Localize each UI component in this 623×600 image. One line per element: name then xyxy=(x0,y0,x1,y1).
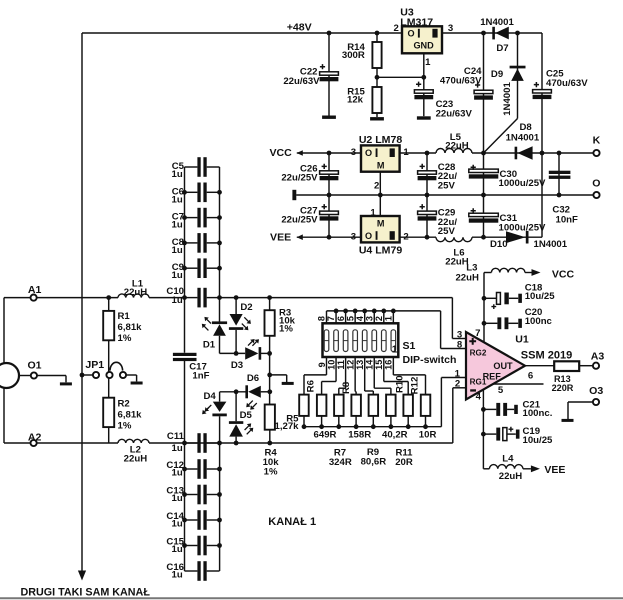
svg-text:D10: D10 xyxy=(490,239,508,250)
svg-text:O: O xyxy=(407,29,414,39)
svg-text:1%: 1% xyxy=(279,324,293,335)
svg-text:10R: 10R xyxy=(419,429,437,440)
svg-text:SSM 2019: SSM 2019 xyxy=(521,350,573,362)
svg-text:VEE: VEE xyxy=(544,464,565,476)
svg-text:3: 3 xyxy=(351,147,356,158)
svg-text:13: 13 xyxy=(355,360,365,370)
svg-text:3: 3 xyxy=(351,231,356,242)
svg-text:649R: 649R xyxy=(314,429,337,440)
svg-text:14: 14 xyxy=(365,359,375,370)
svg-text:2: 2 xyxy=(374,181,379,192)
svg-text:10: 10 xyxy=(326,360,336,370)
svg-text:80,6R: 80,6R xyxy=(361,457,387,468)
svg-text:U1: U1 xyxy=(515,333,529,345)
svg-text:3: 3 xyxy=(448,23,453,34)
svg-text:324R: 324R xyxy=(329,457,352,468)
svg-text:40,2R: 40,2R xyxy=(382,429,408,440)
svg-text:25V: 25V xyxy=(438,226,456,237)
svg-text:1: 1 xyxy=(425,57,431,68)
svg-text:D4: D4 xyxy=(203,391,216,402)
svg-text:1,27k: 1,27k xyxy=(274,421,299,432)
svg-text:1: 1 xyxy=(403,147,409,158)
svg-text:2: 2 xyxy=(403,231,408,242)
svg-text:R8: R8 xyxy=(341,381,352,394)
svg-text:1%: 1% xyxy=(118,421,132,432)
svg-text:1N4001: 1N4001 xyxy=(502,82,513,116)
svg-text:1N4001: 1N4001 xyxy=(480,17,514,28)
svg-text:22uH: 22uH xyxy=(455,273,479,284)
svg-text:6: 6 xyxy=(336,316,346,321)
svg-text:22u/63V: 22u/63V xyxy=(283,76,320,87)
svg-text:O: O xyxy=(365,148,372,158)
svg-text:5: 5 xyxy=(498,385,504,396)
svg-text:22u/63V: 22u/63V xyxy=(436,108,473,119)
svg-text:LM317: LM317 xyxy=(400,16,433,28)
svg-text:R12: R12 xyxy=(410,377,421,395)
svg-text:OUT: OUT xyxy=(493,361,513,371)
svg-text:VEE: VEE xyxy=(270,232,291,244)
svg-text:R10: R10 xyxy=(394,375,405,393)
svg-text:1N4001: 1N4001 xyxy=(534,239,568,250)
svg-text:1%: 1% xyxy=(264,467,278,478)
svg-text:1: 1 xyxy=(370,208,376,219)
svg-text:2: 2 xyxy=(455,379,460,390)
svg-text:1u: 1u xyxy=(171,493,182,504)
svg-text:470u/63V: 470u/63V xyxy=(440,76,482,87)
svg-text:M: M xyxy=(377,160,385,170)
svg-text:A3: A3 xyxy=(591,351,605,363)
svg-text:22uH: 22uH xyxy=(499,471,523,482)
svg-text:U4 LM79: U4 LM79 xyxy=(359,245,403,257)
svg-text:R2: R2 xyxy=(118,399,130,410)
svg-text:1u: 1u xyxy=(171,270,182,281)
svg-text:100nc.: 100nc. xyxy=(523,408,553,419)
svg-text:D8: D8 xyxy=(519,122,532,133)
svg-text:C11: C11 xyxy=(167,431,185,442)
svg-text:RG2: RG2 xyxy=(470,349,487,358)
svg-text:1u: 1u xyxy=(171,569,182,580)
svg-text:M: M xyxy=(377,218,385,228)
svg-text:6,81k: 6,81k xyxy=(118,322,143,333)
svg-text:D6: D6 xyxy=(247,373,259,384)
svg-text:25V: 25V xyxy=(438,180,456,191)
svg-text:3: 3 xyxy=(364,316,374,321)
svg-text:D9: D9 xyxy=(491,69,503,80)
svg-text:2: 2 xyxy=(394,23,399,34)
svg-text:6,81k: 6,81k xyxy=(118,410,143,421)
svg-text:22uH: 22uH xyxy=(445,141,469,152)
svg-text:5: 5 xyxy=(345,316,355,321)
svg-text:15: 15 xyxy=(374,360,384,370)
svg-text:16: 16 xyxy=(384,360,394,370)
svg-text:2: 2 xyxy=(374,316,384,321)
svg-text:DIP-switch: DIP-switch xyxy=(403,354,457,366)
svg-text:1u: 1u xyxy=(171,220,182,231)
svg-text:22uH: 22uH xyxy=(124,453,148,464)
svg-text:220R: 220R xyxy=(552,383,574,393)
svg-text:D2: D2 xyxy=(240,302,252,313)
svg-text:470u/63V: 470u/63V xyxy=(546,78,588,89)
svg-text:20R: 20R xyxy=(395,457,413,468)
svg-text:6: 6 xyxy=(528,371,533,382)
svg-text:10u/25: 10u/25 xyxy=(523,435,554,446)
svg-text:A1: A1 xyxy=(28,284,42,296)
svg-text:D7: D7 xyxy=(496,43,508,54)
svg-text:S1: S1 xyxy=(403,340,416,352)
svg-text:O: O xyxy=(592,177,600,189)
svg-text:1: 1 xyxy=(392,343,398,355)
svg-text:1u: 1u xyxy=(171,467,182,478)
svg-text:8: 8 xyxy=(317,316,327,321)
svg-text:7: 7 xyxy=(326,316,336,321)
svg-text:D5: D5 xyxy=(240,410,253,421)
svg-text:R6: R6 xyxy=(306,380,317,392)
svg-text:+48V: +48V xyxy=(287,21,312,33)
svg-text:9: 9 xyxy=(317,362,327,367)
svg-text:12k: 12k xyxy=(347,95,364,106)
svg-text:1%: 1% xyxy=(118,333,132,344)
svg-text:D3: D3 xyxy=(231,360,243,371)
svg-text:D1: D1 xyxy=(203,340,216,351)
svg-text:O3: O3 xyxy=(589,385,603,397)
svg-text:KANAŁ 1: KANAŁ 1 xyxy=(268,516,316,528)
svg-text:1u: 1u xyxy=(171,544,182,555)
svg-text:L4: L4 xyxy=(502,454,514,465)
svg-text:10u/25: 10u/25 xyxy=(525,291,556,302)
svg-text:4: 4 xyxy=(476,391,482,402)
svg-text:VCC: VCC xyxy=(269,147,292,159)
svg-text:A2: A2 xyxy=(28,431,42,443)
svg-text:REF: REF xyxy=(483,371,502,381)
svg-text:GND: GND xyxy=(413,40,434,50)
svg-text:1u: 1u xyxy=(171,169,182,180)
svg-text:1u: 1u xyxy=(171,295,182,306)
svg-text:1u: 1u xyxy=(171,443,182,454)
svg-text:1000u/25V: 1000u/25V xyxy=(499,178,547,189)
svg-text:22uH: 22uH xyxy=(124,287,148,298)
svg-text:R1: R1 xyxy=(118,311,131,322)
svg-text:K: K xyxy=(593,135,601,147)
svg-text:1: 1 xyxy=(384,316,394,321)
svg-text:12: 12 xyxy=(346,360,356,370)
svg-text:1000u/25V: 1000u/25V xyxy=(499,222,547,233)
svg-text:11: 11 xyxy=(336,360,346,370)
svg-text:10nF: 10nF xyxy=(555,214,578,225)
svg-text:1u: 1u xyxy=(171,194,182,205)
svg-text:22u/25V: 22u/25V xyxy=(281,173,318,184)
svg-text:7: 7 xyxy=(475,328,480,339)
svg-text:1N4001: 1N4001 xyxy=(506,133,540,144)
svg-text:JP1: JP1 xyxy=(85,359,104,371)
svg-text:1nF: 1nF xyxy=(192,370,209,381)
svg-text:8: 8 xyxy=(457,340,463,351)
svg-text:300R: 300R xyxy=(342,50,365,61)
svg-text:1u: 1u xyxy=(171,518,182,529)
svg-text:U2 LM78: U2 LM78 xyxy=(359,134,403,146)
svg-text:22u/25V: 22u/25V xyxy=(281,215,318,226)
svg-text:VCC: VCC xyxy=(552,268,575,280)
svg-text:O: O xyxy=(365,231,372,241)
svg-text:158R: 158R xyxy=(348,429,371,440)
svg-text:O1: O1 xyxy=(27,360,41,372)
svg-text:22uH: 22uH xyxy=(445,256,469,267)
svg-text:DRUGI TAKI SAM KANAŁ: DRUGI TAKI SAM KANAŁ xyxy=(21,586,151,598)
svg-text:100nc: 100nc xyxy=(525,316,553,327)
svg-text:1u: 1u xyxy=(171,245,182,256)
